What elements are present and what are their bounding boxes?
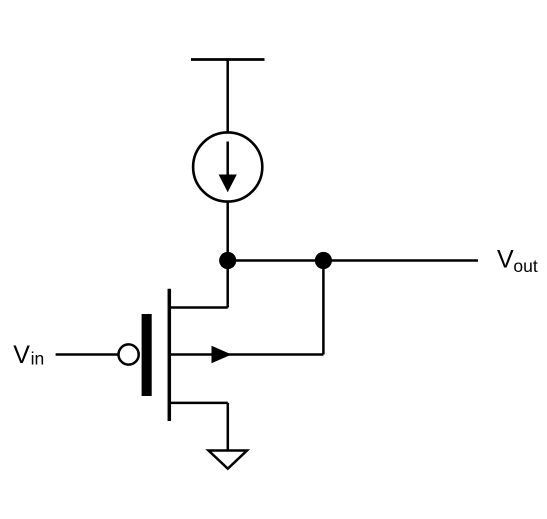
wire node B down to bulk terminal: [322, 261, 325, 355]
node B (output/bulk junction): [315, 252, 332, 269]
svg-text:V: V: [13, 341, 30, 369]
channel line: [168, 289, 172, 421]
svg-text:out: out: [513, 256, 537, 276]
power rail VDD: [191, 58, 265, 61]
gate bubble: [119, 344, 139, 364]
node A (drain/output junction): [219, 252, 236, 269]
label Vin: [13, 341, 44, 369]
gate bar: [142, 314, 152, 396]
ground: [209, 451, 248, 469]
bulk lead with arrow: [169, 353, 323, 356]
wire output net: [228, 259, 478, 262]
current source I1: [193, 132, 262, 201]
wire VDD to current source: [226, 60, 229, 134]
label Vout: [497, 245, 538, 276]
wire source to ground: [227, 403, 230, 451]
source lead: [169, 402, 228, 405]
transistor M1 (PMOS): [119, 289, 324, 421]
svg-text:in: in: [31, 349, 45, 369]
wire gate input: [56, 353, 119, 356]
wire current source to drain: [226, 202, 229, 308]
drain lead: [169, 306, 227, 309]
svg-text:V: V: [497, 245, 514, 273]
